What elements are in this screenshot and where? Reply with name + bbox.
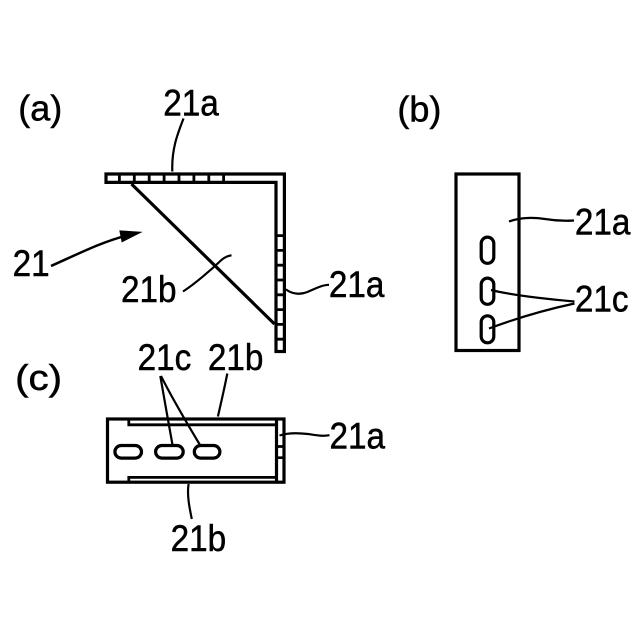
view (a) bracket: top flange 21a top line: [105, 172, 286, 175]
arrow from 21 to bracket: [51, 236, 126, 266]
svg-text:(a): (a): [18, 88, 62, 129]
view (a) top flange tick marks: [119, 173, 223, 183]
view (b) slot 21c #2: [481, 278, 494, 304]
svg-text:21b: 21b: [121, 269, 177, 310]
svg-text:21: 21: [13, 243, 50, 284]
leader from 21b to plate top edge: [218, 374, 227, 417]
view (c) slot 21c #1: [115, 446, 142, 459]
svg-text:21c: 21c: [575, 279, 629, 320]
leader line from 21b to diagonal: [183, 255, 232, 291]
view (a) top flange left end cap: [104, 173, 107, 184]
leader from plate bottom edge to 21b: [188, 484, 192, 519]
arrowhead: [120, 231, 141, 242]
svg-text:21a: 21a: [330, 416, 386, 457]
view (a) right flange tick marks: [275, 236, 286, 340]
view (c) inner bottom fold line: [129, 477, 277, 482]
svg-text:(b): (b): [397, 89, 441, 130]
svg-text:21b: 21b: [208, 337, 264, 378]
svg-text:21b: 21b: [171, 518, 227, 559]
leader from 21c to slot #3: [161, 376, 200, 446]
view (b) flange plate outline: [456, 174, 519, 351]
leader from 21c to slot #2: [160, 376, 173, 447]
view (c) right flange inner line: [275, 419, 278, 482]
view (a) gusset plate 21b diagonal line: [132, 184, 275, 324]
view (b) slot 21c #1: [481, 237, 494, 263]
svg-text:21a: 21a: [163, 83, 219, 124]
wavy leader from right flange to 21a: [286, 285, 329, 294]
view (c) slot 21c #3: [194, 446, 220, 459]
view (b) slot 21c #3: [481, 316, 494, 343]
view (a) right flange outer line: [283, 173, 286, 354]
view (c) right flange slot edge ticks: [275, 447, 284, 458]
view (c) plate outline: [108, 419, 285, 482]
view (c) inner top fold line: [129, 419, 277, 425]
view (a) right flange bottom cap: [275, 350, 286, 353]
wavy leader from right flange to 21a (view c): [280, 433, 330, 435]
view (a) top flange bottom line: [105, 181, 278, 184]
view (a) right flange inner line: [274, 181, 277, 353]
svg-text:21a: 21a: [329, 264, 385, 305]
leader line from 21a to top flange: [172, 119, 183, 172]
svg-text:21c: 21c: [138, 337, 192, 378]
leader from slot #2 to 21c: [491, 290, 575, 302]
leader from slot #3 to 21c: [489, 304, 575, 329]
view (c) slot 21c #2: [156, 446, 184, 459]
svg-text:21a: 21a: [575, 202, 631, 243]
svg-text:(c): (c): [15, 358, 62, 399]
leader from plate to 21a (view b): [509, 218, 574, 222]
